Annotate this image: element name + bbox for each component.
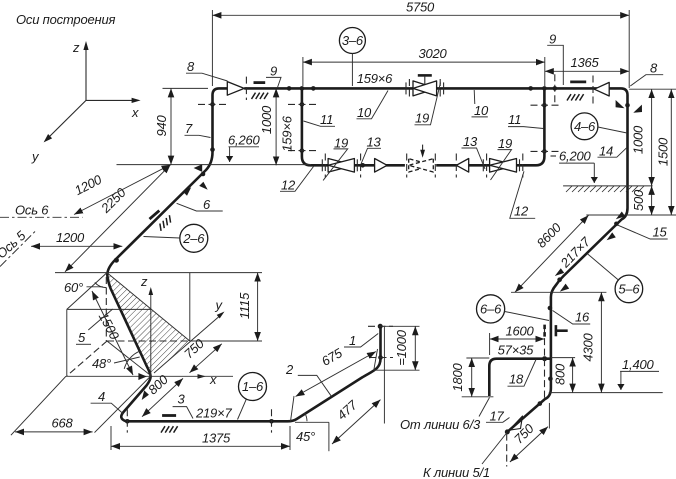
gate valve 19 on bypass right	[483, 154, 523, 178]
svg-text:15: 15	[653, 225, 668, 240]
ext for 750 right	[548, 403, 550, 429]
hidden diagonal R3-F4	[107, 341, 150, 375]
svg-text:4–6: 4–6	[574, 119, 596, 134]
dim 1365	[545, 70, 629, 72]
dim 1800	[471, 358, 473, 397]
dim 800 right	[572, 358, 574, 393]
dim 1375	[110, 426, 112, 450]
svg-text:4300: 4300	[581, 332, 596, 361]
pipe 7 vertical riser and top header pipe 10 and riser 14 down to line 17	[213, 88, 228, 152]
flow arrow on pipe 6	[183, 187, 191, 195]
svg-text:=1000: =1000	[394, 329, 409, 365]
axis line Ось 6	[0, 216, 83, 218]
bottom rear ext for 1115	[190, 340, 262, 342]
svg-text:3: 3	[178, 392, 186, 407]
dim 1200 to axis 6	[74, 165, 171, 215]
svg-text:1200: 1200	[56, 230, 85, 245]
ground plane parallelogram bottom-left	[11, 376, 233, 435]
dim 1200 to axis 5	[31, 245, 122, 247]
slope arrow below bend	[560, 284, 569, 292]
svg-text:159×6: 159×6	[280, 115, 295, 151]
ext for 477 verticals	[295, 421, 329, 423]
flow arrow on pipe 15 top	[616, 212, 625, 220]
dashed boundary at item 8 right apex	[592, 76, 594, 105]
local x axis arrow and label	[198, 374, 207, 379]
svg-text:10: 10	[357, 105, 372, 120]
elevation 6,200	[551, 155, 557, 157]
svg-text:14: 14	[599, 144, 613, 159]
dim 1500 box	[92, 291, 133, 375]
slope arrow left of pipe 15	[607, 232, 616, 240]
right face diagonal F2-R4	[151, 309, 190, 341]
check valve 13 left (apex right)	[375, 159, 388, 173]
hidden edge R3-F3 dashed	[67, 341, 107, 376]
bypass line 12 left of control valve	[322, 164, 405, 167]
pipe 18 horizontal 57x35 with its riser	[489, 359, 551, 396]
svg-text:19: 19	[334, 136, 348, 151]
ext line at junction 800	[551, 357, 575, 359]
svg-text:940: 940	[154, 114, 169, 136]
svg-text:1800: 1800	[450, 362, 465, 391]
svg-text:9: 9	[270, 64, 277, 79]
svg-text:6,200: 6,200	[559, 149, 592, 164]
box front left vertical edge	[66, 309, 68, 376]
slope arrow right of pipe 6	[199, 182, 208, 190]
svg-text:19: 19	[415, 111, 429, 126]
svg-text:800: 800	[553, 363, 568, 385]
slope arrows at top right corner	[616, 100, 625, 108]
svg-text:От линии 6/3: От линии 6/3	[400, 417, 481, 432]
hatched triangle R1-F2-F4	[106, 272, 151, 376]
dashed construction line at jog x=544.5	[544, 328, 546, 398]
svg-text:219×7: 219×7	[195, 406, 232, 421]
svg-text:5750: 5750	[406, 0, 435, 15]
dim 750 bottom	[510, 427, 548, 462]
dim 668	[15, 431, 93, 433]
dim 800 box	[142, 378, 183, 416]
boundary dashes pipe 7	[198, 103, 227, 105]
boundary dashes bottom run	[126, 409, 128, 432]
dim 8600	[515, 215, 589, 292]
ground hatch right	[566, 186, 644, 192]
svg-text:1115: 1115	[237, 292, 252, 319]
svg-text:16: 16	[575, 310, 590, 325]
local z axis arrow and label	[149, 287, 154, 295]
support at 9 left	[252, 83, 269, 99]
ext for 1800 top	[466, 357, 489, 359]
ext for a1000 bottom	[374, 369, 420, 371]
svg-text:1500: 1500	[656, 137, 671, 166]
svg-text:1000: 1000	[259, 105, 274, 134]
svg-text:57×35: 57×35	[498, 343, 534, 358]
long reference line through bend	[66, 375, 233, 377]
svg-text:7: 7	[185, 121, 193, 136]
svg-text:2: 2	[285, 362, 294, 377]
svg-text:19: 19	[498, 136, 512, 151]
hidden edge R3-R4 dashed	[107, 340, 190, 342]
svg-text:17: 17	[490, 409, 505, 424]
svg-text:z: z	[140, 274, 148, 289]
dim 477	[332, 400, 381, 444]
gate valve 19 on bypass left	[322, 154, 360, 178]
svg-text:159×6: 159×6	[357, 71, 393, 86]
svg-text:1–6: 1–6	[242, 379, 264, 394]
dashed boundary before control valve	[406, 154, 408, 178]
pipe 18 lower end mark	[462, 396, 494, 398]
svg-text:1: 1	[349, 333, 356, 348]
svg-text:6–6: 6–6	[480, 301, 502, 316]
box front right vertical edge (z axis)	[150, 291, 152, 376]
support on pipe 6	[149, 208, 173, 232]
elevation line 6,260 left	[117, 164, 312, 166]
hidden edge R1-R3 dashed	[105, 277, 107, 341]
open continuation arrow on pipe 17	[509, 416, 523, 430]
svg-text:1600: 1600	[505, 324, 534, 339]
svg-text:9: 9	[549, 32, 556, 47]
dim ~1000 riser 1	[414, 326, 416, 370]
box top edge with extensions	[55, 272, 262, 274]
bypass line 12 right of control valve	[436, 88, 544, 165]
axes xyz top-left	[47, 46, 136, 139]
check valve 13 right (apex left)	[456, 159, 468, 173]
box edge R1-F1	[67, 273, 107, 310]
dim 675	[291, 396, 295, 421]
svg-text:1365: 1365	[570, 55, 599, 70]
svg-text:z: z	[72, 40, 80, 55]
ground level line right	[563, 185, 653, 187]
support on bottom run	[161, 416, 178, 433]
axis arrowheads	[83, 41, 88, 50]
boundary dashes riser 1	[368, 325, 393, 327]
flow arrow at F4 level	[138, 373, 146, 380]
svg-text:45°: 45°	[296, 429, 315, 444]
dim 1500 right	[670, 89, 672, 215]
svg-text:11: 11	[320, 112, 333, 127]
svg-text:3020: 3020	[418, 46, 447, 61]
dim 2250 diagonal	[65, 165, 171, 272]
box right rear vertical edge	[189, 273, 191, 341]
svg-text:48°: 48°	[92, 356, 111, 371]
svg-text:11: 11	[508, 112, 521, 127]
dim 500 right	[651, 186, 653, 215]
svg-text:12: 12	[514, 204, 529, 219]
dim 1115	[257, 273, 259, 341]
flow arrow at 6260 line	[194, 164, 203, 172]
dim 1000 left	[275, 88, 277, 165]
dim 750 box	[190, 344, 222, 373]
svg-text:5–6: 5–6	[618, 281, 640, 296]
control valve dashed (future) with arrow	[409, 159, 434, 172]
dashed boundary after item 8 left	[245, 77, 247, 100]
level ext at 8600 bottom	[511, 291, 606, 293]
svg-text:12: 12	[281, 178, 296, 193]
svg-text:13: 13	[367, 135, 382, 150]
support at 9 right	[567, 82, 586, 101]
svg-text:Ось 6: Ось 6	[15, 203, 49, 218]
dim 3020	[302, 57, 304, 86]
svg-text:8: 8	[650, 61, 658, 76]
check valve item 8 left (open triangle)	[227, 82, 244, 96]
header level ext right	[629, 88, 676, 90]
svg-text:5: 5	[78, 330, 86, 345]
dim 1600	[490, 338, 545, 340]
bend level line right	[586, 214, 676, 216]
svg-text:4: 4	[98, 389, 105, 404]
dim 1000 right	[651, 89, 653, 186]
svg-text:1375: 1375	[202, 431, 231, 446]
svg-text:x: x	[209, 372, 217, 387]
top face diagonal R1-F2	[106, 272, 151, 309]
axis line Ось 5	[0, 231, 36, 267]
svg-text:500: 500	[631, 189, 646, 211]
box front top edge	[67, 308, 151, 310]
pipe 11 left bypass riser	[302, 88, 322, 165]
svg-text:Оси построения: Оси построения	[16, 12, 115, 27]
dashed line below end node to К линии	[506, 434, 508, 467]
pipe 6 diagonal and pipe 5 steep drop and pipe 4 and bottom run 3 and riser 1	[107, 152, 380, 421]
svg-text:13: 13	[463, 134, 478, 149]
svg-text:668: 668	[51, 416, 73, 431]
hatched triangle F2-R4-F4	[151, 309, 190, 376]
svg-text:10: 10	[474, 103, 489, 118]
svg-text:8: 8	[187, 59, 195, 74]
boundary dashes bypass risers	[288, 103, 316, 105]
level line at 4300 bottom	[549, 392, 663, 394]
svg-text:6: 6	[203, 197, 211, 212]
svg-text:18: 18	[509, 372, 524, 387]
svg-text:3–6: 3–6	[342, 33, 364, 48]
instrument tap T at 16	[555, 325, 558, 336]
dim 940	[163, 87, 209, 89]
svg-text:2–6: 2–6	[182, 231, 205, 246]
dashed section boundary on header right	[554, 74, 556, 104]
dashed boundary after control valve	[434, 154, 436, 178]
svg-text:1,400: 1,400	[622, 357, 655, 372]
local y axis line arrow label	[154, 314, 223, 374]
flow arrow below F4	[142, 390, 149, 400]
svg-text:6,260: 6,260	[228, 133, 261, 148]
ext for a1000 top	[384, 325, 420, 327]
check valve item 8 right side (open triangle pointing left)	[594, 82, 609, 96]
dim 4300	[600, 292, 602, 392]
gate valve 19 on top header with stem	[406, 75, 444, 98]
svg-text:К линии 5/1: К линии 5/1	[423, 465, 490, 479]
svg-text:x: x	[131, 105, 139, 120]
ext for 1600 left	[489, 333, 491, 355]
svg-text:60°: 60°	[64, 280, 83, 295]
flow arrow on pipe 15 bottom	[555, 268, 564, 276]
dim 5750	[211, 10, 213, 86]
svg-text:1000: 1000	[631, 125, 646, 154]
wire top header after item 8 triangle	[244, 88, 627, 432]
